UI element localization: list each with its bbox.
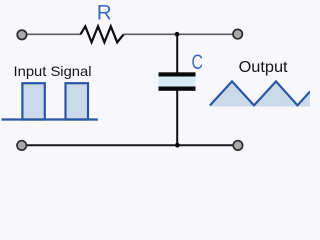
node junction top bbox=[175, 32, 180, 37]
output waveform (triangle wave) bbox=[210, 81, 310, 106]
wire top rail right segment bbox=[124, 33, 233, 35]
text Input Signal bbox=[14, 63, 92, 79]
terminal top-left bbox=[17, 30, 26, 39]
wire bottom rail bbox=[26, 144, 233, 146]
wire top rail left segment bbox=[26, 33, 81, 35]
text Output bbox=[239, 59, 289, 76]
label C bbox=[192, 50, 204, 74]
svg-text:Input Signal: Input Signal bbox=[14, 63, 92, 79]
terminal top-right bbox=[233, 29, 242, 38]
wire capacitor top lead bbox=[176, 34, 178, 72]
terminal bottom-right bbox=[233, 141, 242, 150]
terminal bottom-left bbox=[17, 141, 26, 150]
svg-text:C: C bbox=[192, 50, 204, 74]
capacitor C bbox=[159, 72, 196, 91]
node junction bottom bbox=[175, 143, 180, 148]
svg-text:Output: Output bbox=[239, 59, 289, 76]
label R bbox=[97, 1, 112, 25]
wire capacitor bottom lead bbox=[176, 91, 178, 146]
input waveform (square wave) bbox=[2, 83, 98, 119]
svg-text:R: R bbox=[97, 1, 112, 25]
resistor R bbox=[81, 26, 124, 42]
